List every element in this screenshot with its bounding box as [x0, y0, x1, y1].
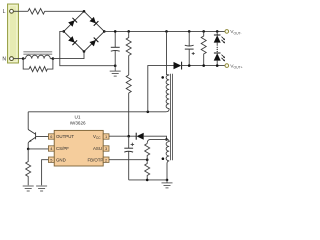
wire RF to bridge top — [45, 10, 85, 12]
node aux top — [165, 138, 168, 141]
wire L to fusible resistor — [14, 10, 29, 12]
node bridge left — [62, 30, 65, 33]
bridge edge left-bottom wire — [64, 31, 84, 51]
wire primary bottom to switch node — [28, 109, 169, 112]
capacitor C2 plus sign — [192, 52, 195, 55]
terminal VOUT- — [225, 30, 229, 34]
resistor R1 (parallel damping) leads — [23, 59, 29, 70]
svg-text:iW3626: iW3626 — [70, 121, 86, 126]
svg-text:5: 5 — [50, 157, 52, 162]
svg-text:OUTPUT: OUTPUT — [56, 134, 74, 139]
series dots between LEDs — [217, 47, 218, 52]
bridge diode D2 (top to right) — [89, 17, 98, 26]
capacitor C3 bottom lead — [128, 152, 130, 180]
wire ground bus bottom — [129, 179, 167, 181]
capacitor C2 (output) top lead — [188, 31, 190, 46]
node rail LED string — [216, 30, 219, 33]
resistor R1 zigzag — [29, 67, 47, 72]
diode D6 (Vcc rectifier) — [135, 133, 137, 140]
capacitor C1 plates — [111, 46, 120, 48]
node CS — [27, 148, 30, 151]
capacitor C1 (bulk) top lead — [114, 31, 116, 47]
wire GND pin down — [42, 160, 49, 186]
capacitor C2 plates — [185, 44, 194, 47]
node rail C1 — [114, 30, 117, 33]
wire base to OUTPUT pin — [36, 136, 49, 138]
polarity dot aux — [162, 157, 165, 160]
node ground bus — [114, 64, 117, 67]
bridge diode D4 (bottom to right) — [89, 38, 98, 47]
wire DC minus from bridge left — [60, 31, 115, 65]
node LED bottom — [216, 64, 219, 67]
transistor Q1 emitter arrow — [29, 140, 32, 142]
wire CS node to CS/PF pin — [28, 148, 48, 150]
resistor RF (fusible) — [28, 9, 45, 15]
wire D6 anode to aux node — [144, 136, 167, 139]
polarity dot primary — [161, 76, 164, 79]
svg-text:ASU: ASU — [93, 146, 102, 151]
wire DC plus rail — [104, 30, 225, 32]
terminal N — [10, 57, 14, 61]
wire diode to output rail — [182, 65, 225, 67]
connector J1 (AC input L/N) — [8, 4, 19, 63]
node rail bleeder resistor — [202, 30, 205, 33]
transformer T1 primary winding — [166, 75, 169, 109]
pin 6 box — [48, 134, 54, 139]
inductor L1 winding — [26, 55, 51, 58]
diode D5 (freewheel/output) — [174, 62, 182, 69]
transformer T1 aux winding — [166, 139, 169, 180]
pin 2 box — [103, 157, 109, 162]
node bridge top — [83, 10, 86, 13]
node FB — [146, 158, 149, 161]
wire between startup resistors — [128, 56, 130, 76]
ground (aux winding) — [162, 180, 173, 188]
wire N to choke — [14, 58, 24, 60]
pin 5 box — [48, 157, 54, 162]
wire rail to primary winding top — [167, 31, 170, 75]
capacitor C2 bottom lead — [188, 49, 190, 66]
node choke right — [52, 57, 55, 60]
transformer core line 2 — [172, 74, 174, 160]
LED1 — [214, 31, 221, 45]
svg-text:3: 3 — [105, 146, 107, 151]
resistor R2 (startup upper) — [126, 31, 131, 55]
svg-text:2: 2 — [105, 157, 107, 162]
bridge edge left-top wire — [64, 11, 84, 31]
IC U1 body — [54, 130, 103, 166]
node bridge right — [103, 30, 106, 33]
transistor Q1 — [28, 130, 35, 142]
ground (CS resistor) — [23, 186, 34, 191]
LED1 emission arrows — [222, 37, 226, 44]
LED2 emission arrows — [222, 55, 226, 62]
node switch/freewheel junction — [147, 111, 150, 114]
resistor R4 (bleeder) — [201, 31, 206, 65]
bridge edge top-right wire — [84, 11, 104, 31]
node output cap bottom — [188, 64, 191, 67]
ground (below bulk cap) — [110, 66, 121, 76]
node rail startup resistors — [127, 30, 130, 33]
wire Vcc pin to Vcc node — [109, 135, 136, 137]
capacitor C1 bottom lead — [114, 51, 116, 66]
bridge edge bottom-right wire — [84, 31, 104, 51]
resistor R5 (current sense) — [26, 149, 31, 185]
capacitor C3 plates — [124, 147, 133, 149]
resistor R6 (FB upper) — [147, 139, 166, 159]
node Vcc — [127, 135, 130, 138]
bridge diode D3 (left to bottom) — [68, 36, 77, 45]
svg-text:GND: GND — [56, 157, 66, 162]
capacitor C3 plus sign — [131, 143, 135, 146]
wire choke to bridge bottom — [53, 52, 84, 59]
svg-text:N: N — [2, 57, 6, 63]
inductor L1 core line lower — [23, 53, 52, 55]
pin 4 box — [48, 146, 54, 151]
wire choke left lead — [23, 58, 25, 60]
terminal L — [10, 9, 14, 13]
wire emitter to CS node — [27, 142, 30, 149]
LED2 — [214, 53, 221, 66]
capacitor C3 (Vcc) top lead — [128, 136, 130, 148]
wire choke right lead — [50, 58, 53, 60]
pin 1 box — [103, 134, 109, 139]
svg-text:FB/OTP: FB/OTP — [88, 157, 104, 162]
svg-text:L: L — [3, 9, 6, 15]
svg-text:U1: U1 — [75, 114, 81, 119]
node aux bottom — [166, 179, 169, 182]
bridge diode D1 (left to top) — [68, 18, 77, 27]
svg-text:6: 6 — [50, 134, 52, 139]
wire switch node up to freewheel diode — [148, 66, 174, 112]
terminal VOUT+ — [225, 64, 229, 68]
wire FB/OTP pin to divider — [109, 159, 147, 161]
svg-text:CS/PF: CS/PF — [56, 146, 69, 151]
resistor R1 right lead — [47, 59, 53, 70]
svg-text:1: 1 — [105, 134, 107, 139]
ground (GND pin) — [36, 186, 47, 191]
transistor Q1 collector wire — [27, 112, 29, 130]
node rail output cap — [188, 30, 191, 33]
transformer core line 1 — [170, 74, 172, 160]
node bleeder bottom — [202, 64, 205, 67]
node choke left — [22, 57, 25, 60]
inductor L1 core line upper — [23, 51, 52, 53]
pin 3 box — [103, 146, 109, 151]
wire R3 to Vcc node — [128, 93, 130, 136]
resistor R7 (FB lower) — [145, 160, 150, 180]
node bridge bottom — [83, 50, 86, 53]
node rail primary feed — [165, 30, 168, 33]
resistor R3 (startup lower) — [126, 75, 131, 93]
node divider bottom — [146, 179, 149, 182]
